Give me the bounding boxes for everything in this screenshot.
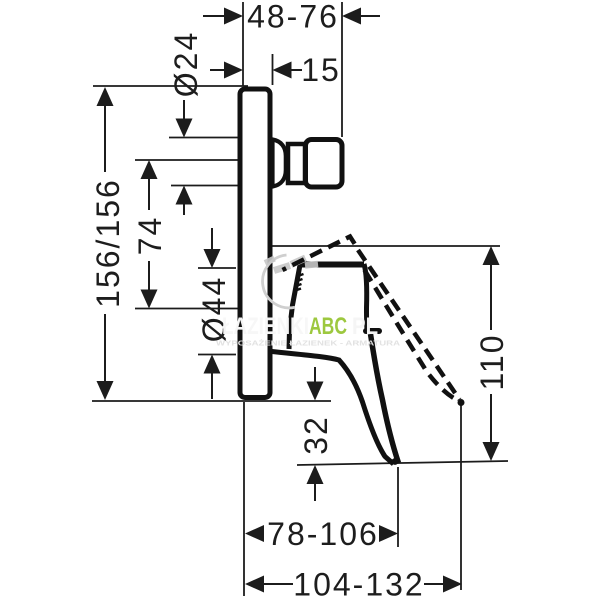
lever handle body fill — [289, 264, 367, 348]
svg-text:32: 32 — [298, 415, 334, 455]
escutcheon plate (side view) — [240, 89, 270, 398]
svg-text:110: 110 — [474, 333, 510, 390]
extension line knob top — [169, 137, 240, 139]
svg-text:48-76: 48-76 — [247, 0, 339, 35]
svg-text:WYPOSAŻENIE ŁAZIENEK - ARMATUR: WYPOSAŻENIE ŁAZIENEK - ARMATURA — [216, 339, 400, 348]
dashed raised handle lower edge — [365, 270, 459, 401]
dimension 78-106 — [245, 516, 398, 552]
extension line sleeve bottom — [198, 354, 236, 356]
dashed raised handle upper edge — [358, 250, 460, 400]
shut-off knob head — [306, 140, 343, 188]
svg-text:ABC: ABC — [309, 313, 347, 340]
extension line plate face left vertical — [242, 2, 244, 86]
extension line solid tip vertical — [397, 467, 399, 547]
svg-text:104-132: 104-132 — [293, 567, 424, 600]
svg-text:PL: PL — [352, 313, 378, 340]
lever handle grip hatching — [294, 274, 304, 291]
svg-text:15: 15 — [301, 52, 341, 88]
dimension 110 — [474, 246, 510, 461]
dimension Ø24 — [168, 31, 204, 215]
extension line knob face right vertical — [341, 2, 343, 137]
dashed raised handle top edge — [283, 237, 359, 271]
shut-off knob dome — [273, 140, 286, 187]
blade back edge — [371, 334, 399, 463]
watermark swoosh — [265, 258, 318, 271]
dimension 156/156 — [90, 87, 126, 400]
extension line plate top — [93, 85, 248, 87]
extension line sleeve top — [198, 267, 236, 269]
svg-text:156/156: 156/156 — [90, 178, 126, 308]
lever handle top edge — [299, 262, 364, 268]
extension line handle tip level — [297, 461, 508, 465]
blade tip — [392, 458, 399, 465]
dimension 48-76 — [203, 0, 380, 35]
sleeve bottom and blade front edge — [272, 352, 394, 465]
dimension 15 — [210, 52, 341, 88]
dimension 32 — [298, 367, 334, 501]
lever handle right edge — [364, 264, 367, 331]
dimension 104-132 — [245, 567, 462, 600]
lever handle foot stub — [366, 328, 379, 334]
extension line knob axis — [135, 159, 240, 161]
svg-text:Ø24: Ø24 — [168, 31, 204, 97]
extension line handle raised top — [272, 245, 500, 247]
svg-text:78-106: 78-106 — [267, 516, 379, 552]
extension line 15 tick — [272, 54, 274, 85]
dimension 74 — [132, 160, 168, 309]
extension line bottom left vertical — [243, 402, 245, 596]
svg-text:ŁAZIENKI: ŁAZIENKI — [222, 313, 309, 340]
extension line cartridge axis — [135, 308, 240, 310]
dashed tip dot — [458, 399, 465, 406]
watermark big text row — [222, 313, 378, 340]
extension line knob bottom — [171, 185, 240, 187]
shut-off knob stem — [288, 144, 305, 183]
dimension Ø44 — [196, 228, 232, 399]
svg-text:74: 74 — [132, 216, 168, 256]
lever handle left edge — [289, 265, 300, 349]
watermark logo circle — [263, 255, 295, 308]
extension line baseline wall bottom — [92, 400, 331, 402]
extension line dashed tip vertical — [460, 405, 462, 590]
